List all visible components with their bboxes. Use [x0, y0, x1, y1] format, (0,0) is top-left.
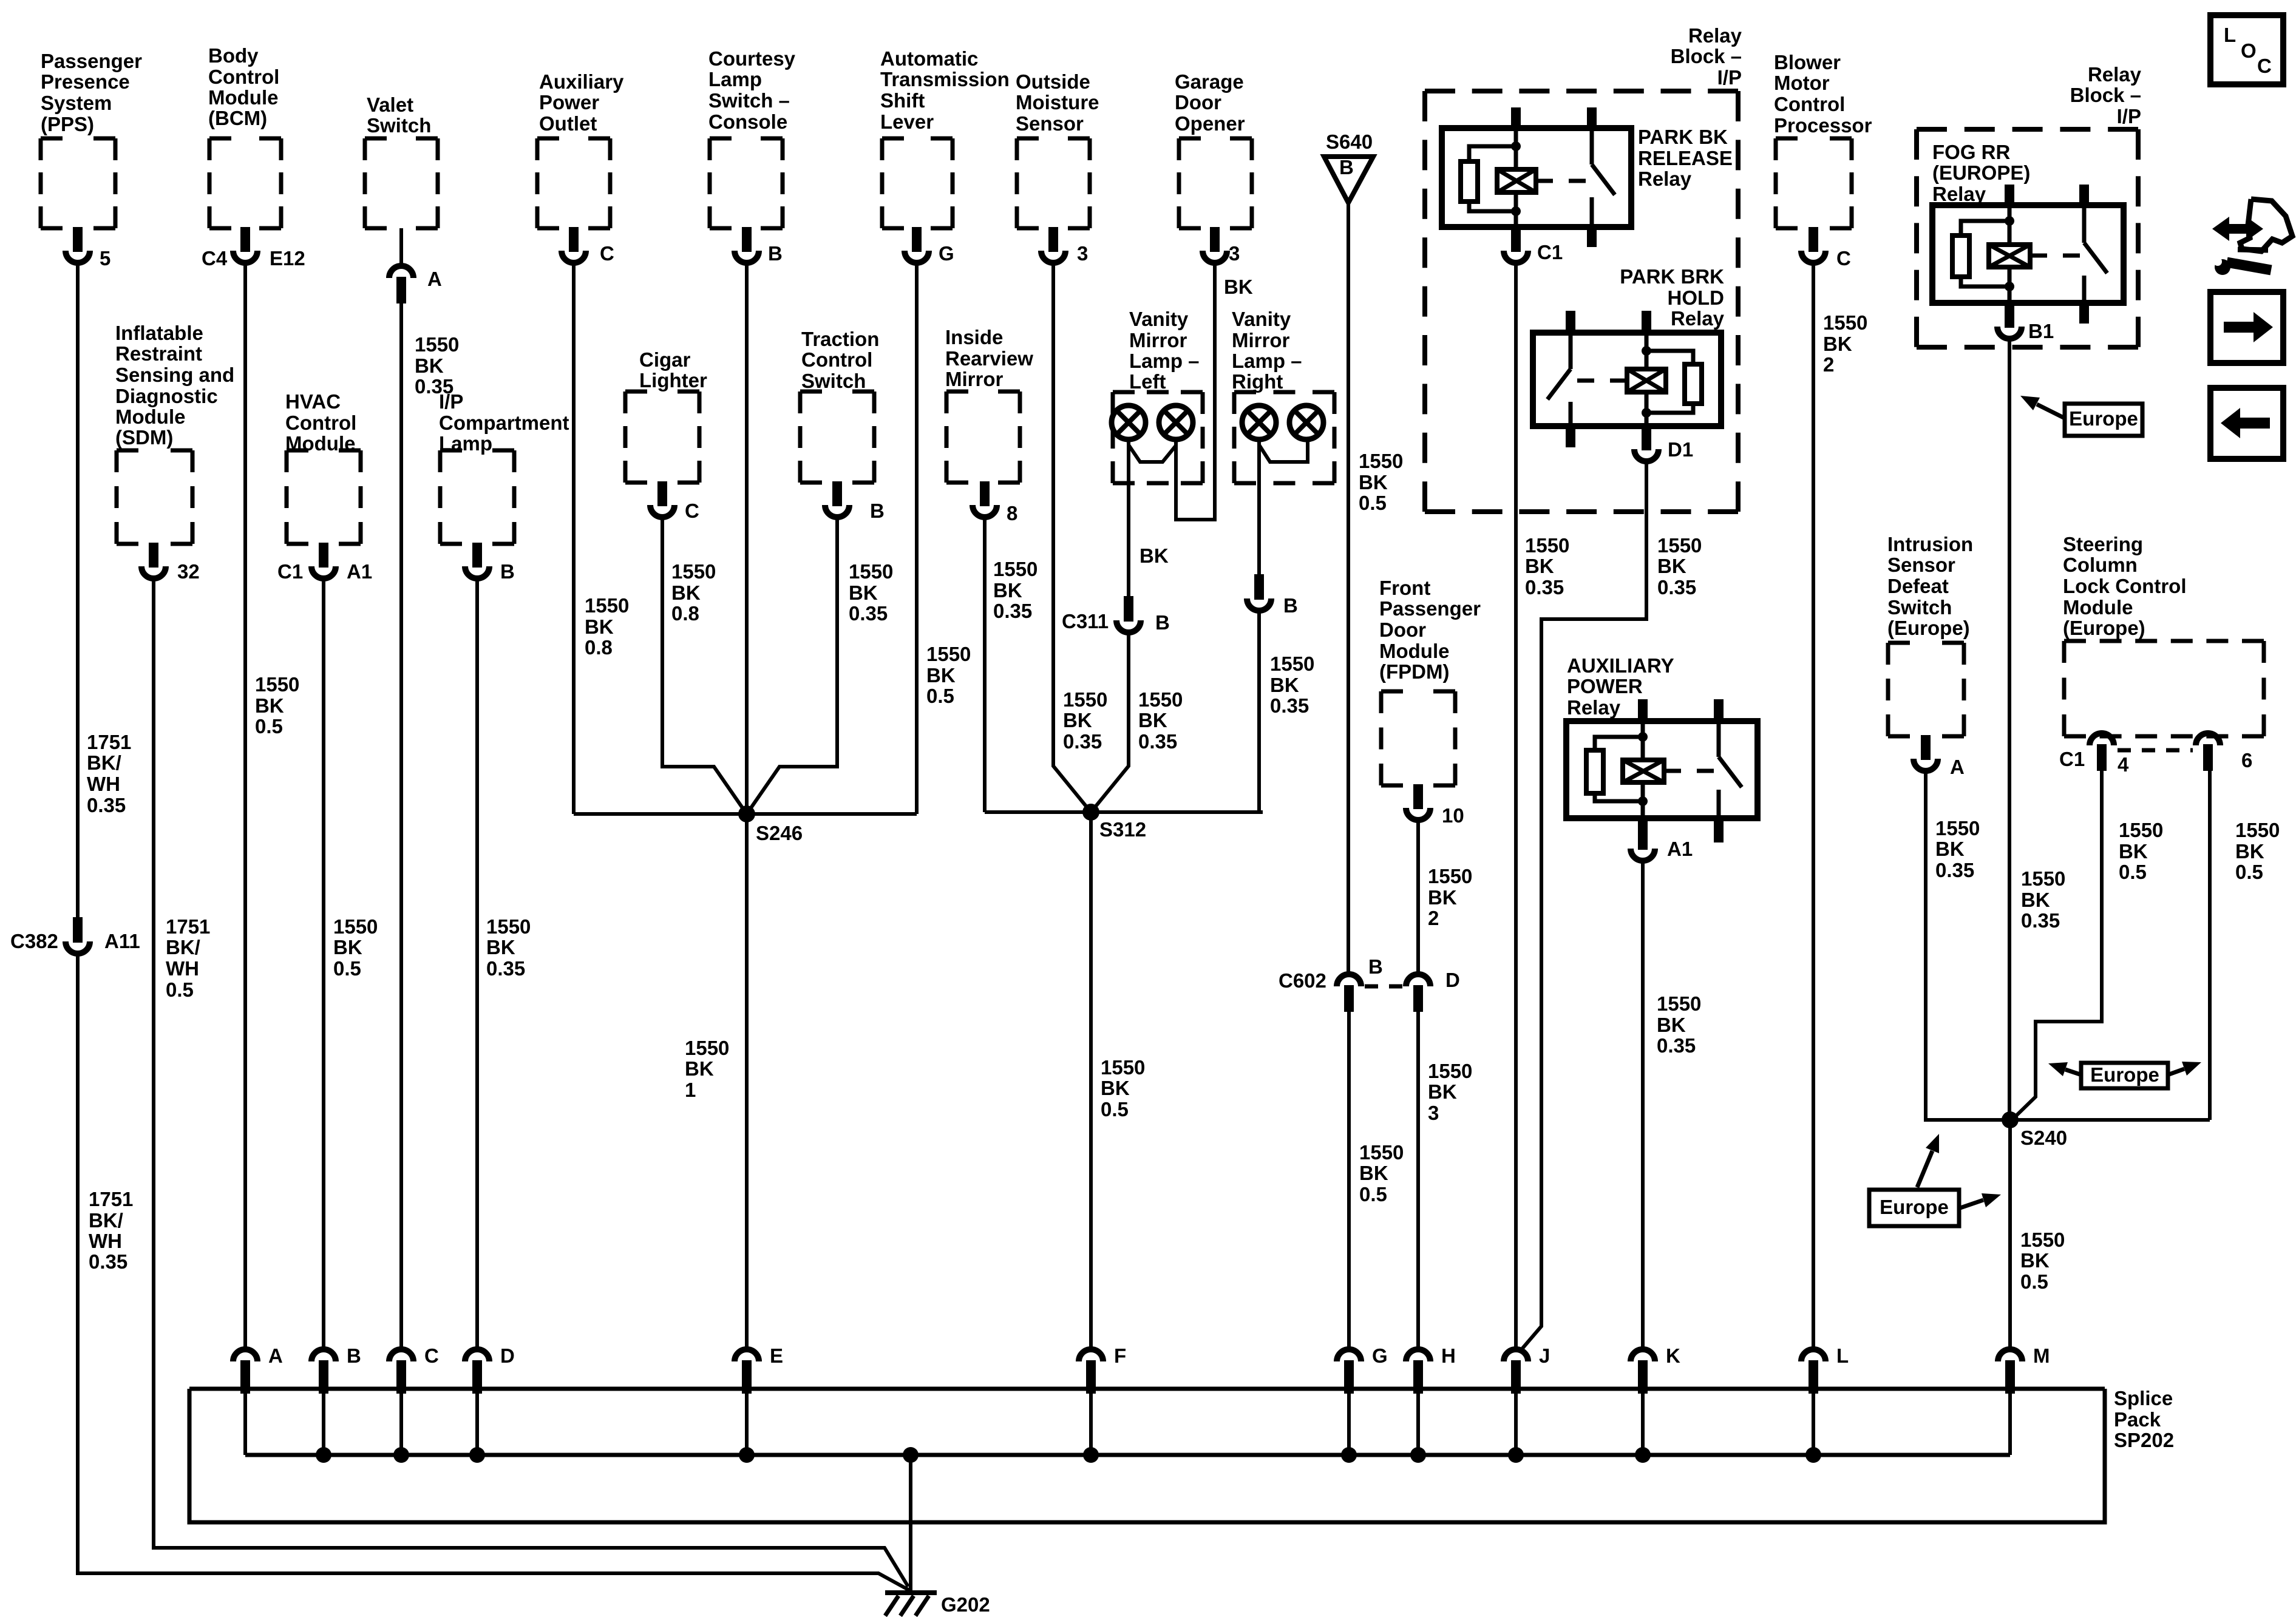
pin stub coil top (PARK BRK HOLD) [1642, 311, 1651, 334]
svg-text:E12: E12 [270, 247, 305, 269]
junction dot H [1410, 1447, 1426, 1463]
wire VML-Left right lamp to Garage Door Opener wire [1176, 265, 1215, 520]
component Steering Column Lock Control Module box [2064, 641, 2264, 736]
connector label C4 [202, 247, 228, 269]
wire A1 to splice pack K [1641, 863, 1645, 1347]
component Vanity Mirror Lamp - Left box [1113, 392, 1203, 483]
svg-text:Relay: Relay [1638, 168, 1692, 190]
component Front Passenger Door Module (FPDM) label [1379, 577, 1481, 683]
relay actuator dashed line (PARK BRK HOLD) [1577, 379, 1627, 383]
ground G202 symbol [885, 1593, 937, 1616]
svg-text:Left: Left [1129, 370, 1166, 393]
component Steering Column Lock Control Module (Europe) label [2063, 533, 2187, 639]
component Garage Door Opener box [1179, 138, 1252, 228]
relay switch (PARK BRK HOLD) [1569, 333, 1573, 369]
svg-text:0.35: 0.35 [486, 957, 525, 980]
svg-text:1550: 1550 [671, 560, 716, 583]
junction dot C [393, 1447, 409, 1463]
svg-text:BK: BK [486, 936, 515, 958]
wire label 1550 BK 0.8 (Aux Power Outlet) [585, 594, 629, 659]
svg-text:Defeat: Defeat [1887, 575, 1949, 597]
svg-text:1550: 1550 [1063, 688, 1107, 711]
icon component-view glyph (outline, double arrow, wrench) [2212, 199, 2292, 275]
svg-text:1550: 1550 [2235, 819, 2280, 841]
pin label 5 [100, 247, 110, 269]
pin label H (splice pack) [1441, 1344, 1456, 1367]
svg-text:Passenger: Passenger [1379, 597, 1481, 620]
connector pin C of Cigar Lighter [650, 481, 674, 517]
svg-text:Sensor: Sensor [1016, 112, 1084, 135]
wire VML-Right left lamp down to connector B [1257, 439, 1261, 574]
pin label A (Valet) [427, 268, 442, 290]
svg-text:5: 5 [100, 247, 110, 269]
component Courtesy Lamp Switch box [710, 138, 783, 228]
relay resistor (PARK BRK HOLD) [1646, 351, 1693, 364]
svg-text:BK: BK [2020, 1249, 2050, 1272]
wire I/P Lamp B to splice pack D [475, 581, 479, 1347]
inline connector C311 pin B [1116, 596, 1141, 632]
component Outside Moisture Sensor box [1017, 138, 1090, 228]
pin stub coil top (FOG RR) [2005, 185, 2014, 206]
pin stub coil bottom to C1 (PARK BK RELEASE) [1511, 227, 1521, 245]
svg-text:0.35: 0.35 [1525, 576, 1564, 598]
svg-text:PARK BK: PARK BK [1638, 126, 1728, 148]
svg-text:Diagnostic: Diagnostic [115, 385, 218, 407]
pin label B (I/P Lamp) [500, 560, 515, 583]
svg-text:Block –: Block – [2070, 84, 2141, 106]
svg-text:1550: 1550 [2021, 867, 2065, 890]
pin label B (VML-Right) [1283, 594, 1298, 617]
connector pin 5 of PPS [66, 227, 90, 263]
pin label A1 (relay) [1667, 838, 1693, 860]
connector pin E of Splice Pack SP202 [735, 1349, 759, 1394]
pin stub switch bottom (PARK BK RELEASE) [1587, 227, 1597, 247]
wire Traction Control Switch B to S246 [747, 520, 837, 814]
splice pack top bus line [189, 1387, 2105, 1391]
svg-text:Valet: Valet [367, 93, 413, 116]
junction dot D [469, 1447, 485, 1463]
component FPDM box [1381, 691, 1455, 785]
svg-text:B: B [1283, 594, 1298, 617]
svg-text:S246: S246 [756, 822, 803, 844]
pin label A1 (HVAC) [347, 560, 372, 583]
pin label 6 (SCLCM) [2241, 749, 2252, 771]
svg-text:0.5: 0.5 [1101, 1098, 1129, 1120]
svg-text:BK: BK [2235, 840, 2264, 863]
svg-text:Vanity: Vanity [1232, 308, 1291, 330]
wire label 1550 BK 0.5 (pin 4) [2119, 819, 2163, 883]
wire Courtesy Lamp Switch B through S246 to splice pack E [745, 265, 749, 1347]
component Inside Rearview Mirror label [945, 326, 1033, 390]
wire SCLCM pin 6 down to S240 line [2208, 771, 2212, 1120]
svg-text:Pack: Pack [2114, 1408, 2161, 1431]
component Relay Block - I/P dashed box [1425, 91, 1738, 512]
dashed link C1 connector (SCLCM) [2118, 748, 2193, 753]
svg-text:A1: A1 [1667, 838, 1693, 860]
splice pack mid line [245, 1453, 2010, 1457]
svg-text:1751: 1751 [166, 915, 210, 938]
pin label G (splice pack) [1372, 1344, 1388, 1367]
node label G202 [941, 1593, 990, 1616]
wire label 1550 BK 0.5 (pin 6) [2235, 819, 2280, 883]
svg-text:0.5: 0.5 [1359, 492, 1387, 514]
relay actuator dashed line (FOG RR) [2030, 254, 2080, 258]
svg-text:BK: BK [1140, 544, 1169, 567]
pin label 32 [177, 560, 200, 583]
wire label 1550 BK 0.35 (Outside Moisture Sensor) [1063, 688, 1107, 753]
pin label F (splice pack) [1114, 1344, 1126, 1367]
svg-text:Relay: Relay [1671, 307, 1725, 330]
svg-text:(EUROPE): (EUROPE) [1932, 161, 2030, 184]
node label S246 [756, 822, 803, 844]
lamp left bulb of Vanity Mirror Lamp - Right [1242, 405, 1276, 439]
wire splice pack H to mid line [1416, 1389, 1420, 1455]
svg-text:K: K [1666, 1344, 1680, 1367]
svg-text:S312: S312 [1099, 818, 1146, 841]
relay resistor (AUX POWER) [1595, 737, 1643, 750]
component Auxiliary Power Outlet box [537, 138, 610, 228]
component Intrusion Sensor Defeat Switch (Europe) label [1887, 533, 1973, 639]
svg-text:Lamp: Lamp [708, 68, 762, 90]
wire label 1550 BK 0.35 (B1 wire) [2021, 867, 2065, 932]
svg-text:0.5: 0.5 [2119, 861, 2147, 883]
svg-text:Switch: Switch [367, 114, 431, 137]
svg-text:0.5: 0.5 [1359, 1183, 1387, 1205]
svg-text:Switch: Switch [1887, 596, 1952, 619]
svg-text:C311: C311 [1062, 610, 1109, 632]
svg-text:S240: S240 [2020, 1127, 2067, 1149]
wire splice pack G to mid line [1347, 1389, 1351, 1455]
component Blower Motor Control Processor box [1776, 138, 1852, 228]
connector pin F of Splice Pack SP202 [1079, 1349, 1103, 1394]
svg-text:B1: B1 [2028, 320, 2054, 342]
pin label 8 (Inside Rearview Mirror) [1007, 502, 1017, 524]
relay switch (AUX POWER) [1717, 721, 1721, 757]
wire S246 horizontal line [574, 812, 917, 816]
svg-text:C: C [600, 242, 614, 265]
connector pin A of Intrusion Sensor Defeat Switch [1914, 735, 1938, 771]
svg-text:D1: D1 [1668, 438, 1693, 461]
svg-text:Mirror: Mirror [1129, 329, 1187, 351]
svg-text:8: 8 [1007, 502, 1017, 524]
wire label BK (C311) [1140, 544, 1169, 567]
pin label B (Traction Control Switch) [870, 500, 885, 522]
wire label 1550 BK 0.35 (Traction Control) [849, 560, 893, 625]
svg-text:I/P: I/P [1717, 66, 1742, 89]
svg-text:C602: C602 [1279, 969, 1326, 992]
svg-text:G202: G202 [941, 1593, 990, 1616]
pin stub coil top (PARK BK RELEASE) [1511, 107, 1521, 129]
connector label C1 (SCLCM) [2059, 748, 2085, 770]
component Valet Switch label [367, 93, 431, 137]
lamp left bulb of Vanity Mirror Lamp - Left [1112, 405, 1146, 439]
svg-text:A11: A11 [104, 930, 140, 952]
pin label D (splice pack) [500, 1344, 515, 1367]
wire label 1751 BK/WH 0.35 (upper) [87, 731, 131, 816]
pin stub coil top (AUX POWER) [1638, 699, 1648, 722]
wire splice pack L to mid line [1812, 1389, 1815, 1455]
svg-text:Motor: Motor [1774, 72, 1830, 94]
pin label D (C602) [1445, 969, 1460, 991]
wire BCM E12 to splice pack A [243, 265, 247, 1347]
svg-text:(FPDM): (FPDM) [1379, 660, 1449, 683]
pin label C1 (relay) [1537, 241, 1563, 263]
connector pin A1 of AUX POWER relay [1631, 842, 1655, 861]
connector pin 10 of FPDM [1406, 784, 1430, 820]
svg-text:Switch –: Switch – [708, 89, 790, 112]
wire label 1550 BK 0.35 (Intrusion) [1935, 817, 1980, 881]
junction splice S246 [738, 805, 755, 822]
component Outside Moisture Sensor label [1016, 70, 1099, 135]
component Cigar Lighter box [625, 392, 699, 483]
svg-text:0.35: 0.35 [2021, 909, 2060, 932]
component Vanity Mirror Lamp - Left label [1129, 308, 1200, 393]
svg-text:2: 2 [1428, 907, 1439, 929]
callout Europe box with arrows (below S240) [1917, 1134, 1939, 1187]
inline connector C602 pin B [1337, 974, 1361, 1012]
wire B1 to S240 [2008, 341, 2011, 1120]
svg-text:Module: Module [208, 86, 278, 109]
component Passenger Presence System (PPS) label [41, 50, 142, 135]
svg-text:S640: S640 [1326, 131, 1373, 153]
wire lamp bottoms U-link (VML Right) [1259, 439, 1308, 462]
svg-text:0.35: 0.35 [89, 1250, 127, 1273]
wire S312 horizontal line [985, 810, 1263, 814]
svg-text:WH: WH [87, 773, 120, 795]
svg-text:3: 3 [1428, 1102, 1439, 1124]
svg-text:Module: Module [1379, 640, 1449, 662]
svg-text:BK: BK [2021, 889, 2050, 911]
pin label 4 (SCLCM) [2118, 753, 2129, 776]
wire label 1550 BK 0.5 (HVAC) [333, 915, 378, 980]
svg-text:0.35: 0.35 [849, 602, 888, 625]
connector pin J of Splice Pack SP202 [1504, 1349, 1528, 1394]
wire C311 B to S312 [1091, 635, 1129, 812]
component Traction Control Switch label [801, 328, 879, 392]
svg-text:BK: BK [1657, 1014, 1686, 1036]
svg-text:Europe: Europe [2090, 1063, 2159, 1086]
svg-text:BK: BK [1525, 555, 1554, 577]
svg-text:BK: BK [1270, 674, 1299, 696]
connector pin B of VML-Right [1247, 574, 1271, 611]
svg-text:Lever: Lever [880, 110, 934, 133]
svg-text:Outside: Outside [1016, 70, 1090, 93]
svg-text:Relay: Relay [1932, 183, 1986, 205]
component Relay Block - I/P label (right) [2070, 63, 2142, 127]
svg-text:Moisture: Moisture [1016, 91, 1099, 114]
dashed link C602 [1365, 985, 1402, 989]
svg-text:0.5: 0.5 [333, 957, 361, 980]
svg-text:Passenger: Passenger [41, 50, 142, 72]
svg-text:Power: Power [539, 91, 599, 114]
wire HVAC A1 to splice pack B [322, 581, 325, 1347]
svg-text:E: E [770, 1344, 783, 1367]
svg-text:(Europe): (Europe) [1887, 617, 1970, 639]
junction dot L [1805, 1447, 1821, 1463]
pin stub coil bottom to D1 (PARK BRK HOLD) [1642, 426, 1651, 443]
svg-text:POWER: POWER [1567, 675, 1643, 697]
svg-text:BK: BK [1063, 709, 1092, 731]
component Inflatable Restraint Sensing and Diagnostic Module (SDM) label [115, 322, 234, 449]
relay coil branch (PARK BRK HOLD) [1645, 333, 1649, 369]
wire VML-Right B to S312 line [1259, 613, 1263, 812]
pin label B1 (relay) [2028, 320, 2054, 342]
relay coil branch (FOG RR) [2008, 205, 2012, 245]
relay coil solenoid box (PARK BRK HOLD) [1627, 369, 1666, 392]
pin label C (Blower) [1836, 247, 1851, 269]
svg-text:C1: C1 [2059, 748, 2085, 770]
svg-text:BK: BK [849, 581, 878, 604]
relay label PARK BK RELEASE Relay [1638, 126, 1733, 190]
svg-text:Blower: Blower [1774, 51, 1841, 73]
wire label 1550 BK 3 (to H) [1428, 1060, 1472, 1124]
wire ground tap from mid line [903, 1447, 919, 1463]
connector pin L of Splice Pack SP202 [1801, 1349, 1826, 1394]
svg-text:C382: C382 [10, 930, 58, 952]
component Inside Rearview Mirror box [946, 392, 1020, 483]
pin label E12 [270, 247, 305, 269]
svg-text:1550: 1550 [1270, 653, 1314, 675]
relay label FOG RR (EUROPE) Relay [1932, 141, 2030, 205]
inline connector C382 pin A11 [66, 917, 90, 954]
svg-text:0.35: 0.35 [1063, 730, 1102, 753]
wire label 1550 BK 0.35 (Inside Rearview Mirror) [993, 558, 1038, 622]
svg-text:Mirror: Mirror [1232, 329, 1290, 351]
connector pin 8 of Inside Rearview Mirror [973, 481, 997, 517]
svg-text:B: B [870, 500, 885, 522]
svg-text:WH: WH [89, 1230, 122, 1252]
svg-text:A: A [1950, 756, 1965, 778]
svg-text:1: 1 [685, 1079, 696, 1101]
pin label 3 (Garage Door Opener) [1229, 242, 1240, 265]
svg-text:Courtesy: Courtesy [708, 47, 796, 70]
wire S312 to splice pack F [1089, 812, 1093, 1347]
pin label A11 [104, 930, 140, 952]
pin stub switch top (AUX POWER) [1714, 699, 1724, 722]
svg-text:0.5: 0.5 [166, 978, 194, 1001]
wire label 1550 BK 0.5 (to G) [1359, 1141, 1404, 1205]
svg-text:1550: 1550 [849, 560, 893, 583]
svg-text:J: J [1539, 1344, 1550, 1367]
connector pin 6 of SCLCM [2196, 733, 2220, 771]
wire splice pack C to mid line [399, 1389, 403, 1455]
wire Cigar Lighter C to S246 [662, 520, 747, 814]
pin stub switch bottom (AUX POWER) [1714, 818, 1724, 842]
pin label 10 (FPDM) [1442, 804, 1464, 827]
svg-text:Opener: Opener [1175, 112, 1245, 135]
relay switch (PARK BK RELEASE) [1590, 128, 1594, 164]
relay switch (FOG RR) [2082, 205, 2087, 243]
svg-text:Control: Control [208, 66, 279, 88]
relay actuator dashed line (PARK BK RELEASE) [1536, 179, 1588, 183]
junction dot G [1341, 1447, 1357, 1463]
svg-text:Steering: Steering [2063, 533, 2143, 555]
svg-text:Mirror: Mirror [945, 368, 1004, 390]
svg-text:RELEASE: RELEASE [1638, 147, 1733, 169]
wire SCLCM pin 4 jog to S240 [2013, 771, 2102, 1119]
svg-text:PARK BRK: PARK BRK [1620, 265, 1724, 288]
connector pin H of Splice Pack SP202 [1406, 1349, 1430, 1394]
connector C1 pin 4 of SCLCM [2090, 733, 2114, 771]
connector pin B of Courtesy Lamp Switch [735, 227, 759, 263]
wire label 1550 BK 0.35 (D1) [1657, 534, 1702, 598]
wire D1 jog to splice pack J [1520, 464, 1646, 1352]
svg-text:BK/: BK/ [87, 751, 121, 774]
wire label 1550 BK 0.5 (S240 to M) [2020, 1229, 2065, 1293]
relay resistor (FOG RR) [1961, 221, 2009, 236]
lamp right bulb of Vanity Mirror Lamp - Left [1159, 405, 1193, 439]
svg-text:(SDM): (SDM) [115, 426, 173, 449]
pin label C (Cigar Lighter) [685, 500, 699, 522]
wire splice pack M to mid line corner [2008, 1389, 2012, 1455]
component Intrusion Sensor Defeat Switch box [1888, 643, 1964, 736]
svg-text:I/P: I/P [439, 390, 463, 413]
wire Valet A to splice pack C [399, 303, 403, 1347]
junction dot J [1508, 1447, 1524, 1463]
pin stub switch top (FOG RR) [2079, 185, 2089, 206]
svg-text:A: A [427, 268, 442, 290]
svg-text:BK: BK [333, 936, 362, 958]
svg-text:(Europe): (Europe) [2063, 617, 2145, 639]
svg-text:Control: Control [801, 348, 872, 371]
component I/P Compartment Lamp label [439, 390, 569, 455]
component I/P Compartment Lamp box [440, 450, 514, 544]
icon right-arrow box [2210, 292, 2283, 363]
svg-text:BK/: BK/ [166, 936, 200, 958]
svg-text:BK: BK [1359, 1162, 1388, 1184]
svg-text:BK: BK [2119, 840, 2148, 863]
svg-text:C: C [2257, 55, 2272, 77]
svg-text:Relay: Relay [1567, 696, 1621, 719]
svg-text:SP202: SP202 [2114, 1429, 2174, 1451]
wire splice pack D to mid line [475, 1389, 479, 1455]
connector C4 pin E12 of BCM [233, 227, 257, 263]
svg-text:Right: Right [1232, 370, 1283, 393]
svg-text:C4: C4 [202, 247, 228, 269]
relay coil solenoid box (FOG RR) [1989, 245, 2030, 267]
svg-text:6: 6 [2241, 749, 2252, 771]
svg-text:1550: 1550 [333, 915, 378, 938]
relay coil branch (AUX POWER) [1641, 721, 1645, 760]
component Auxiliary Power Outlet label [539, 70, 624, 135]
svg-text:1751: 1751 [89, 1188, 133, 1210]
pin label B (C602) [1368, 955, 1383, 978]
wire label 1751 BK/WH 0.5 [166, 915, 210, 1001]
component Valet Switch box [365, 138, 438, 228]
pin stub switch top (PARK BRK HOLD) [1566, 311, 1575, 334]
wire label 1550 BK 0.5 (BCM) [255, 673, 299, 737]
svg-text:Module: Module [2063, 596, 2133, 619]
junction dot B [316, 1447, 331, 1463]
svg-text:O: O [2241, 39, 2257, 62]
node label S640 [1326, 131, 1373, 153]
svg-text:A1: A1 [347, 560, 372, 583]
svg-text:1550: 1550 [926, 643, 971, 665]
svg-text:BK: BK [1224, 276, 1253, 298]
pin stub switch bottom (FOG RR) [2079, 303, 2089, 324]
svg-text:1550: 1550 [1823, 311, 1867, 334]
svg-text:Sensing and: Sensing and [115, 364, 234, 386]
connector label C382 [10, 930, 58, 952]
svg-text:Door: Door [1379, 619, 1426, 641]
svg-text:Front: Front [1379, 577, 1430, 599]
component Courtesy Lamp Switch - Console label [708, 47, 796, 133]
svg-text:0.35: 0.35 [87, 794, 126, 816]
svg-text:L: L [1836, 1344, 1849, 1367]
wire Aux Power Outlet C down to S246 branch [572, 265, 576, 814]
svg-text:Body: Body [208, 44, 259, 67]
component Passenger Presence System (PPS) box [41, 138, 115, 228]
